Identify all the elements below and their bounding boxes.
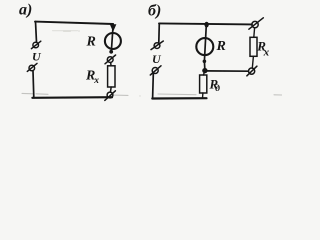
svg-text:x: x <box>263 47 270 59</box>
svg-text:U: U <box>152 52 162 66</box>
svg-text:R: R <box>216 39 226 54</box>
svg-text:б): б) <box>148 3 161 20</box>
svg-text:а): а) <box>19 2 32 19</box>
svg-text:U: U <box>32 50 42 64</box>
svg-text:x: x <box>93 76 99 86</box>
svg-text:R: R <box>86 35 96 50</box>
svg-text:д: д <box>215 83 220 94</box>
